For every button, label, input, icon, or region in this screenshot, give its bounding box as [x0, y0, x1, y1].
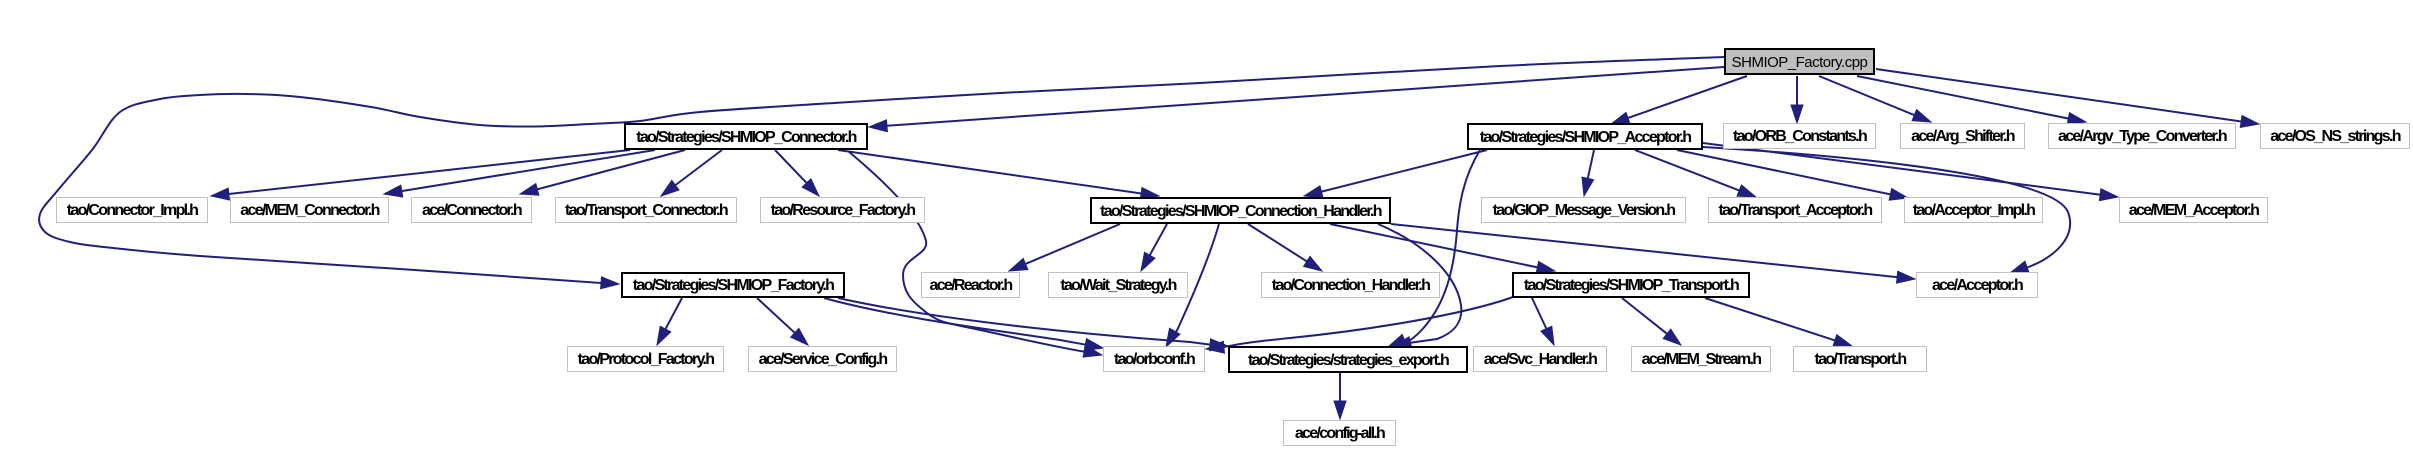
edge SHMIOP_Acceptor.h to GIOP_Message_Version.h — [1582, 150, 1594, 196]
node tao/GIOP_Message_Version.h — [1481, 197, 1686, 223]
node ace/OS_NS_strings.h — [2260, 123, 2410, 149]
edge SHMIOP_Factory.cpp to OS_NS_strings.h — [1876, 69, 2259, 127]
edge SHMIOP_Transport.h to orbconf.h — [1206, 297, 1513, 353]
node tao/Connection_Handler.h — [1261, 272, 1440, 298]
node tao/Resource_Factory.h — [760, 197, 925, 223]
edge SHMIOP_Acceptor.h to ace Acceptor.h — [1703, 147, 2070, 273]
edge SHMIOP_Factory.cpp to SHMIOP_Connector.h — [869, 67, 1724, 132]
node ace/Arg_Shifter.h — [1900, 123, 2025, 149]
edge SHMIOP_Transport.h to Transport.h — [1705, 298, 1852, 346]
node tao/Wait_Strategy.h — [1048, 272, 1188, 298]
node tao/Transport_Acceptor.h — [1708, 197, 1882, 223]
edge SHMIOP_Factory.cpp to ORB_Constants.h — [1791, 76, 1803, 123]
edge SHMIOP_Factory.cpp to SHMIOP_Factory.h — [39, 57, 1724, 289]
node ace/MEM_Stream.h — [1631, 346, 1771, 372]
edge strategies_export.h to config-all.h — [1334, 373, 1346, 419]
node tao/Strategies/SHMIOP_Connector.h — [624, 123, 868, 150]
node ace/MEM_Connector.h — [230, 197, 389, 223]
edge SHMIOP_Connector.h to Connector_Impl.h — [211, 150, 630, 200]
node SHMIOP_Factory.cpp — [1724, 48, 1875, 75]
node ace/Svc_Handler.h — [1473, 346, 1607, 372]
edge SHMIOP_Acceptor.h to MEM_Acceptor.h — [1703, 143, 2118, 201]
edge SHMIOP_Acceptor.h to SHMIOP_Connection_Handler.h — [1304, 150, 1487, 197]
node ace/Acceptor.h — [1916, 272, 2038, 298]
node ace/Argv_Type_Converter.h — [2048, 123, 2236, 149]
node tao/Strategies/SHMIOP_Factory.h — [621, 272, 845, 298]
node ace/MEM_Acceptor.h — [2119, 197, 2268, 223]
edge SHMIOP_Connection_Handler.h to strategies_export.h — [1378, 224, 1461, 349]
node tao/Transport_Connector.h — [555, 197, 737, 223]
edge SHMIOP_Connector.h to MEM_Connector.h — [384, 150, 655, 197]
node tao/Strategies/strategies_export.h — [1228, 346, 1468, 373]
node tao/Strategies/SHMIOP_Transport.h — [1512, 272, 1750, 298]
edge SHMIOP_Connection_Handler.h to SHMIOP_Transport.h — [1330, 224, 1555, 273]
edge SHMIOP_Factory.cpp to SHMIOP_Acceptor.h — [1611, 76, 1747, 124]
edge SHMIOP_Connector.h to ace Connector.h — [520, 150, 685, 195]
edge SHMIOP_Connection_Handler.h to Reactor.h — [1009, 224, 1120, 271]
edge SHMIOP_Connector.h to Transport_Connector.h — [661, 150, 722, 196]
edge SHMIOP_Acceptor.h to Acceptor_Impl.h — [1677, 150, 1908, 200]
node ace/Service_Config.h — [748, 346, 897, 372]
node tao/Acceptor_Impl.h — [1904, 197, 2043, 223]
edge SHMIOP_Transport.h to MEM_Stream.h — [1622, 298, 1681, 345]
edge SHMIOP_Acceptor.h to Transport_Acceptor.h — [1635, 150, 1756, 197]
edge SHMIOP_Factory.h to strategies_export.h — [838, 298, 1228, 351]
node tao/Strategies/SHMIOP_Acceptor.h — [1467, 123, 1703, 150]
node ace/Connector.h — [411, 197, 532, 223]
node tao/Strategies/SHMIOP_Connection_Handler.h — [1090, 197, 1391, 224]
edge SHMIOP_Factory.h to Service_Config.h — [757, 298, 808, 345]
node ace/config-all.h — [1283, 420, 1396, 446]
edge SHMIOP_Factory.h to orbconf.h — [824, 298, 1103, 351]
edge SHMIOP_Factory.cpp to Argv_Type_Converter.h — [1857, 76, 2086, 124]
edge SHMIOP_Connection_Handler.h to orbconf.h — [1166, 224, 1219, 347]
node tao/Connector_Impl.h — [56, 197, 208, 223]
edge SHMIOP_Acceptor.h to strategies_export.h — [1388, 150, 1480, 347]
node tao/Transport.h — [1793, 346, 1927, 372]
edge SHMIOP_Transport.h to Svc_Handler.h — [1532, 298, 1554, 345]
edge SHMIOP_Connector.h to SHMIOP_Connection_Handler.h — [838, 150, 1159, 199]
edge SHMIOP_Connector.h to orbconf.h — [848, 151, 1102, 357]
node ace/Reactor.h — [921, 272, 1020, 298]
edge SHMIOP_Connector.h to Resource_Factory.h — [775, 150, 819, 196]
edge SHMIOP_Connection_Handler.h to Wait_Strategy.h — [1141, 224, 1167, 271]
edge SHMIOP_Factory.h to Protocol_Factory.h — [657, 298, 682, 345]
node tao/ORB_Constants.h — [1723, 123, 1876, 149]
edge SHMIOP_Connection_Handler.h to Connection_Handler.h — [1248, 224, 1322, 271]
edge SHMIOP_Connection_Handler.h to ace Acceptor.h — [1391, 224, 1915, 283]
edge SHMIOP_Factory.cpp to Arg_Shifter.h — [1819, 76, 1931, 122]
node tao/orbconf.h — [1103, 346, 1205, 372]
node tao/Protocol_Factory.h — [567, 346, 724, 372]
